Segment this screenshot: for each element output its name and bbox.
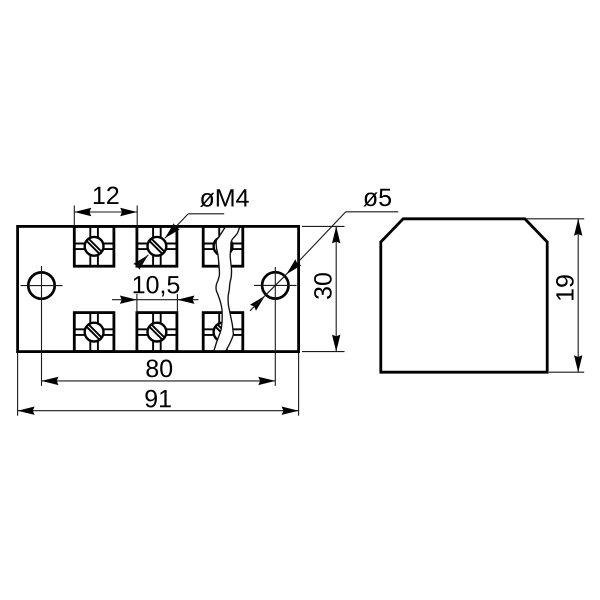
terminal block A bottom row: square housing (74, 313, 114, 352)
label oM4 leader diagonal (165, 214, 189, 239)
dimension line 30 (335, 226, 337, 351)
arrowhead dim 30 bottom (332, 335, 340, 352)
terminal block B top row: square housing (137, 226, 177, 266)
terminal block A top: screw head M4 (85, 237, 104, 256)
extension line for dim 80 (right, through hole center) (274, 267, 276, 386)
terminal block C top: horizontal wire slot lines (203, 243, 243, 245)
label o5 arrowhead lower (at hole edge) (250, 293, 268, 311)
terminal block A top: vertical wire slot lines (89, 226, 91, 266)
arrowhead dim 19 top (574, 219, 582, 236)
terminal block C bottom row: square housing (203, 313, 243, 352)
label oM4 arrowhead lower (at screw edge) (133, 252, 151, 270)
left mounting hole o5 circle (28, 272, 54, 298)
terminal block B bottom: screw head M4 (148, 323, 167, 342)
dimension text 12 (94, 187, 119, 204)
terminal block B top: screw slot (146, 235, 168, 257)
terminal block B bottom: screw slot (146, 321, 168, 343)
arrowhead dim 12 left (74, 208, 91, 216)
extension line dim 10,5 left (136, 294, 138, 313)
dimension text 19 (rotated) (556, 275, 574, 300)
terminal block C top row: square housing (203, 226, 243, 266)
extension line dim 91 left (17, 353, 19, 416)
terminal block C bottom: screw head M4 (214, 323, 233, 342)
arrowhead dim 10,5 right (outside, pointing left) (177, 296, 194, 304)
terminal block B bottom: horizontal wire slot lines (137, 328, 177, 330)
extension line dim 30 top (302, 225, 345, 227)
arrowhead dim 91 right (282, 407, 299, 415)
left view: body outline rectangle (18, 226, 299, 351)
terminal block C top: screw slot (212, 235, 234, 257)
arrowhead dim 10,5 left (outside, pointing right) (120, 296, 137, 304)
label o5 underline (346, 211, 399, 213)
terminal block A top: horizontal wire slot lines (74, 243, 114, 245)
dimension line 91 (18, 410, 299, 412)
extension line dim 91 right (298, 353, 300, 416)
terminal block A bottom: screw head M4 (85, 323, 104, 342)
extension line dim 19 bottom (549, 371, 584, 373)
dimension line 12 (74, 211, 137, 213)
terminal block C bottom: screw slot (212, 321, 234, 343)
terminal block A bottom: screw slot (83, 321, 105, 343)
extension line for dim 80 (left, through hole center) (41, 266, 43, 386)
dimension text 30 (rotated) (314, 273, 332, 299)
label o5 diameter line through hole (265, 274, 286, 295)
terminal block B bottom row: square housing (137, 313, 177, 352)
left mounting hole o5: centerlines (21, 285, 63, 287)
break band white mask between break lines (214, 227, 240, 352)
terminal block B bottom: vertical wire slot lines (152, 313, 154, 352)
terminal block B top: horizontal wire slot lines (137, 243, 177, 245)
break line left (wavy) (214, 227, 226, 352)
arrowhead dim 80 right (258, 377, 275, 385)
extension line dim 10,5 right (176, 294, 178, 313)
dimension line 80 (42, 380, 276, 382)
extension line dim 12 left (73, 206, 75, 227)
right view: side profile outline with chamfered top corners (381, 219, 547, 372)
arrowhead dim 12 right (120, 208, 137, 216)
dimension text 80 (146, 360, 172, 378)
label oM4 underline (188, 213, 224, 215)
break line right (wavy) (226, 227, 240, 352)
label o5 leader diagonal (286, 212, 345, 274)
terminal block C bottom: horizontal wire slot lines (203, 328, 243, 330)
dimension line 19 (577, 219, 579, 372)
dimension text 91 (145, 390, 170, 408)
label oM4 arrowhead upper (at screw edge) (162, 223, 180, 241)
terminal block C bottom: vertical wire slot lines (218, 313, 220, 352)
dimension text 10,5 (134, 276, 180, 297)
extension line dim 12 right (136, 206, 138, 230)
arrowhead dim 30 top (332, 226, 340, 243)
label oM4 leader tail lower (137, 255, 148, 266)
terminal block A bottom: vertical wire slot lines (89, 313, 91, 352)
arrowhead dim 91 left (18, 407, 35, 415)
terminal block B top: screw head M4 (148, 237, 167, 256)
label o5 leader tail lower (250, 296, 265, 311)
extension line dim 19 top (526, 218, 584, 220)
terminal block A top row: square housing (74, 226, 114, 266)
terminal block A bottom: horizontal wire slot lines (74, 328, 114, 330)
extension line dim 30 bottom (302, 351, 345, 353)
label o5 text (363, 189, 391, 207)
terminal block C top: screw head M4 (214, 237, 233, 256)
terminal block A top: screw slot (83, 235, 105, 257)
right mounting hole o5: centerlines (254, 284, 297, 286)
arrowhead dim 80 left (42, 377, 59, 385)
dimension line 10,5 with tails (112, 299, 199, 301)
right mounting hole o5 circle (262, 272, 288, 298)
terminal block C top: vertical wire slot lines (218, 226, 220, 266)
label o5 arrowhead upper (at hole edge) (283, 259, 301, 277)
arrowhead dim 19 bottom (574, 355, 582, 372)
terminal block B top: vertical wire slot lines (152, 226, 154, 266)
label oM4 text (200, 189, 249, 207)
